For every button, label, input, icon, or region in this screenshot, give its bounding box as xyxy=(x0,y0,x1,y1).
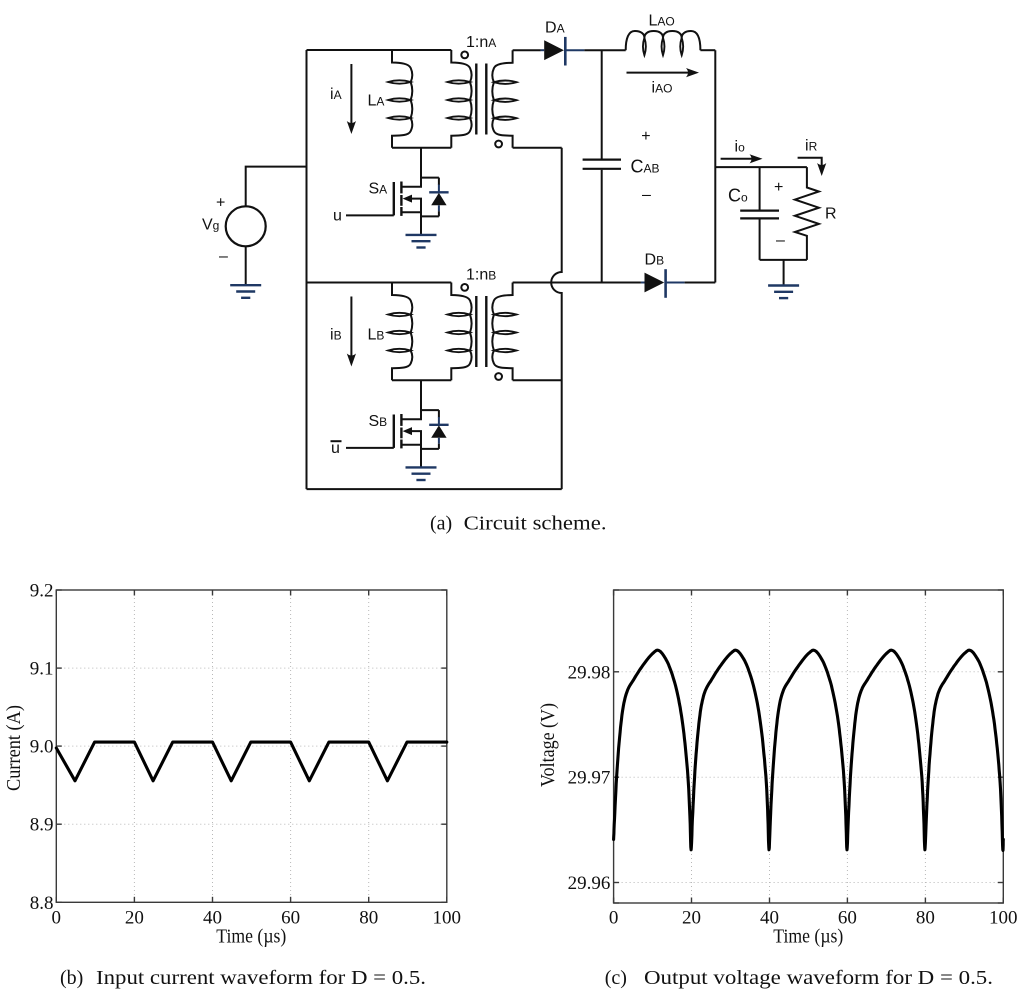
arrow io xyxy=(721,158,753,160)
transformer TB secondary winding xyxy=(492,283,512,381)
svg-text:29.98: 29.98 xyxy=(568,662,611,683)
svg-text:80: 80 xyxy=(359,908,378,929)
svg-text:–: – xyxy=(642,187,651,204)
svg-text:iAO: iAO xyxy=(652,80,673,97)
svg-text:u: u xyxy=(331,440,340,457)
svg-text:100: 100 xyxy=(989,908,1018,929)
svg-text:100: 100 xyxy=(433,908,462,929)
voltage source Vg xyxy=(226,206,266,246)
inductor LA (magnetizing) xyxy=(392,50,412,148)
transistor SA (MOSFET with body diode) xyxy=(394,148,439,235)
svg-text:SB: SB xyxy=(369,413,388,430)
wire to output ground xyxy=(783,260,785,286)
wire LB bottom to TB primary bottom xyxy=(392,379,451,381)
arrow iA xyxy=(350,64,352,124)
plot (b) input current: frame and ticks xyxy=(56,590,447,902)
plot (c) waveform curve xyxy=(614,650,1004,850)
svg-text:Time (µs): Time (µs) xyxy=(773,926,843,948)
wire DB cathode to right vertical xyxy=(685,282,716,284)
transformer TB core xyxy=(476,296,486,367)
svg-text:(b): (b) xyxy=(60,967,83,989)
wire output node to R top xyxy=(715,166,807,168)
svg-text:iR: iR xyxy=(805,138,818,155)
wire gate lead u-bar xyxy=(346,447,394,449)
svg-text:DA: DA xyxy=(545,20,565,37)
svg-text:SA: SA xyxy=(369,181,388,198)
wire Vg+ to bus xyxy=(246,167,307,207)
svg-text:io: io xyxy=(735,139,746,156)
plot (b) waveform curve xyxy=(56,742,447,781)
ground (output) xyxy=(768,286,799,299)
wire CAB bottom plate to node B xyxy=(601,170,603,283)
transformer TB primary winding xyxy=(451,283,471,381)
svg-text:0: 0 xyxy=(609,908,619,929)
wire input bus (left vertical) xyxy=(306,50,308,489)
svg-text:8.8: 8.8 xyxy=(30,893,54,914)
svg-text:iB: iB xyxy=(330,327,342,344)
svg-text:Current (A): Current (A) xyxy=(4,705,25,791)
transistor SB (MOSFET with body diode) xyxy=(394,380,439,467)
svg-text:LAO: LAO xyxy=(649,13,675,30)
wire LA bottom to primary bottom xyxy=(392,147,451,149)
dot marker TB secondary xyxy=(495,373,502,380)
dot marker TA primary xyxy=(461,52,468,59)
wire TA secondary down with hop over phase-B wire xyxy=(551,148,562,489)
wire TB secondary top to DB anode xyxy=(513,282,641,284)
wire to Co top plate xyxy=(759,167,761,210)
svg-text:29.96: 29.96 xyxy=(568,873,611,894)
svg-text:9.2: 9.2 xyxy=(30,581,54,602)
svg-text:(c): (c) xyxy=(605,967,627,989)
svg-text:80: 80 xyxy=(916,908,935,929)
svg-text:+: + xyxy=(774,179,783,196)
plot (c) axis tick labels xyxy=(568,662,1018,928)
plot (b) input current: grid xyxy=(56,590,447,902)
wire TA secondary to DA anode xyxy=(513,49,541,51)
svg-text:(a): (a) xyxy=(430,513,452,535)
transformer TA secondary winding xyxy=(492,50,512,148)
wire output bottom xyxy=(760,259,807,261)
svg-text:1:nB: 1:nB xyxy=(466,267,496,284)
svg-text:20: 20 xyxy=(682,908,701,929)
ground (input) xyxy=(230,285,261,298)
plot (c) output voltage: grid xyxy=(614,590,1004,903)
svg-text:+: + xyxy=(641,128,650,145)
svg-text:9.0: 9.0 xyxy=(30,737,54,758)
svg-text:0: 0 xyxy=(52,908,62,929)
inductor LAO xyxy=(626,31,701,50)
wire DA cathode to node LAO-in xyxy=(584,49,625,51)
svg-text:Time (µs): Time (µs) xyxy=(216,926,286,948)
diode DB xyxy=(641,269,685,298)
svg-text:Circuit scheme.: Circuit scheme. xyxy=(464,513,607,535)
wire right vertical (LAO out to DB cathode) xyxy=(714,50,716,282)
wire TA secondary bottom xyxy=(513,147,562,149)
wire gate lead u xyxy=(346,214,394,216)
inductor LB (magnetizing) xyxy=(392,283,412,381)
arrow iAO xyxy=(627,72,690,74)
resistor R xyxy=(795,167,819,260)
svg-text:LB: LB xyxy=(368,327,385,344)
svg-text:Input current waveform for D =: Input current waveform for D = 0.5. xyxy=(96,967,426,989)
plot (b) axis tick labels xyxy=(30,581,461,929)
ground (SB source) xyxy=(406,467,437,480)
svg-text:Vg: Vg xyxy=(202,217,219,234)
diode DA xyxy=(541,37,585,66)
arrow iB xyxy=(350,297,352,357)
wire top rail phase A xyxy=(307,49,452,51)
svg-text:+: + xyxy=(216,195,225,212)
svg-text:29.97: 29.97 xyxy=(568,768,611,789)
transformer TA core xyxy=(476,64,486,135)
ground (SA source) xyxy=(406,235,437,248)
svg-text:R: R xyxy=(825,206,837,223)
svg-text:–: – xyxy=(219,248,228,265)
wire top rail phase B xyxy=(307,282,452,284)
svg-text:LA: LA xyxy=(368,93,385,110)
wire Vg- to ground xyxy=(245,246,247,285)
wire bottom rail xyxy=(307,488,562,490)
wire TB secondary bottom xyxy=(513,379,562,381)
wire node A to CAB top plate xyxy=(601,50,603,158)
svg-text:1:nA: 1:nA xyxy=(466,34,496,51)
svg-text:Output voltage waveform for D: Output voltage waveform for D = 0.5. xyxy=(644,967,993,989)
arrow iR xyxy=(798,158,822,166)
svg-text:–: – xyxy=(776,232,785,249)
transformer TA primary winding xyxy=(451,50,471,148)
plot (c) output voltage: frame and ticks xyxy=(614,590,1004,903)
wire Co bottom plate down xyxy=(759,219,761,260)
dot marker TB primary xyxy=(461,284,468,291)
capacitor CAB xyxy=(583,160,621,169)
dot marker TA secondary xyxy=(495,141,502,148)
svg-text:8.9: 8.9 xyxy=(30,815,54,836)
overbar of u-bar xyxy=(331,440,342,442)
capacitor Co xyxy=(740,211,779,219)
svg-text:u: u xyxy=(333,208,342,225)
svg-text:DB: DB xyxy=(645,252,665,269)
wire LAO to output right vertical xyxy=(700,49,715,51)
svg-text:20: 20 xyxy=(125,908,144,929)
svg-text:iA: iA xyxy=(330,86,342,103)
svg-text:Voltage (V): Voltage (V) xyxy=(538,703,559,787)
svg-text:9.1: 9.1 xyxy=(30,659,54,680)
